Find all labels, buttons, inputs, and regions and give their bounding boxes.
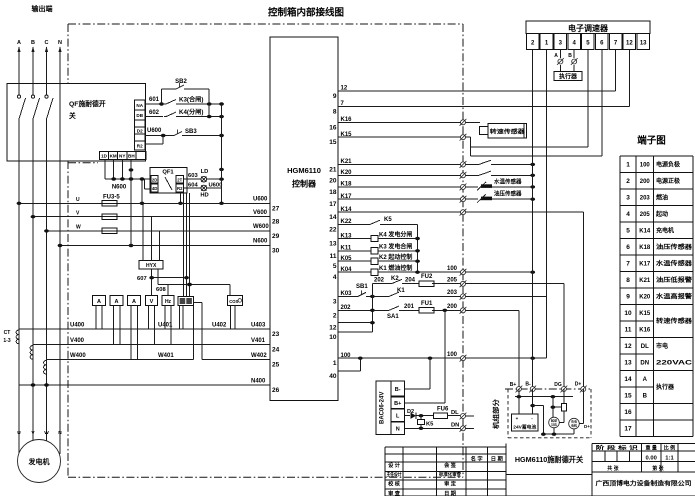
svg-text:DB: DB xyxy=(136,113,143,118)
svg-text:电源负极: 电源负极 xyxy=(656,160,681,168)
svg-text:604: 604 xyxy=(188,183,198,189)
svg-text:HD: HD xyxy=(200,193,208,199)
svg-text:HGM6110: HGM6110 xyxy=(287,166,321,175)
svg-text:重 量: 重 量 xyxy=(646,444,657,451)
svg-text:8: 8 xyxy=(626,277,630,284)
svg-text:FU3-5: FU3-5 xyxy=(103,195,120,201)
svg-text:D+: D+ xyxy=(584,424,590,429)
svg-text:K3(合闸): K3(合闸) xyxy=(179,96,203,104)
svg-text:13: 13 xyxy=(624,359,632,366)
svg-text:W401: W401 xyxy=(158,353,174,359)
svg-text:COS: COS xyxy=(229,299,238,304)
svg-text:N: N xyxy=(396,427,400,433)
svg-text:U: U xyxy=(76,197,80,203)
svg-text:U600: U600 xyxy=(209,182,223,188)
svg-text:14: 14 xyxy=(329,214,337,221)
svg-text:20: 20 xyxy=(329,177,337,184)
svg-text:主任设计: 主任设计 xyxy=(387,470,403,478)
svg-text:共 张: 共 张 xyxy=(607,465,619,472)
svg-text:油压传感器: 油压传感器 xyxy=(494,190,522,198)
svg-text:U401: U401 xyxy=(158,322,173,328)
svg-text:控制器: 控制器 xyxy=(292,179,317,189)
svg-text:203: 203 xyxy=(640,195,651,201)
svg-text:10: 10 xyxy=(329,334,337,341)
svg-text:200: 200 xyxy=(447,304,458,310)
svg-text:K14: K14 xyxy=(639,228,651,234)
svg-text:D2: D2 xyxy=(137,129,143,134)
svg-text:12: 12 xyxy=(329,325,337,332)
svg-text:端子图: 端子图 xyxy=(637,135,666,147)
svg-text:2T: 2T xyxy=(177,177,182,182)
svg-text:K5: K5 xyxy=(426,421,434,427)
svg-text:B-: B- xyxy=(525,382,531,388)
svg-text:A: A xyxy=(115,299,119,305)
svg-text:日 期: 日 期 xyxy=(491,454,504,462)
svg-text:阶 段 标 识: 阶 段 标 识 xyxy=(596,444,638,451)
svg-text:203: 203 xyxy=(447,290,458,296)
svg-text:DL: DL xyxy=(451,410,459,416)
svg-text:电机: 电机 xyxy=(571,423,577,428)
svg-text:K4 发电分闸: K4 发电分闸 xyxy=(379,230,412,238)
svg-text:2: 2 xyxy=(626,178,630,185)
svg-text:9: 9 xyxy=(626,293,630,300)
svg-text:K4(分闸): K4(分闸) xyxy=(179,108,203,116)
svg-text:K2: K2 xyxy=(391,276,399,282)
svg-text:16: 16 xyxy=(624,409,632,416)
svg-text:N600: N600 xyxy=(112,185,127,191)
svg-text:13: 13 xyxy=(329,241,337,248)
svg-text:W400: W400 xyxy=(70,353,86,359)
svg-text:机组部分: 机组部分 xyxy=(491,398,500,429)
svg-text:HGM6110施耐德开关: HGM6110施耐德开关 xyxy=(515,455,584,464)
svg-text:执行器: 执行器 xyxy=(559,72,578,80)
svg-text:24: 24 xyxy=(272,347,280,354)
svg-text:油压传感器: 油压传感器 xyxy=(656,243,693,251)
svg-text:601: 601 xyxy=(149,97,160,103)
svg-text:W600: W600 xyxy=(253,224,269,230)
svg-text:16: 16 xyxy=(329,124,337,131)
svg-text:4: 4 xyxy=(333,274,337,281)
svg-text:R2: R2 xyxy=(177,186,183,191)
svg-text:602: 602 xyxy=(149,110,160,116)
svg-text:21: 21 xyxy=(329,166,337,173)
svg-text:U600: U600 xyxy=(253,197,268,203)
svg-text:K5: K5 xyxy=(384,217,392,223)
svg-text:11: 11 xyxy=(625,326,632,333)
svg-text:100: 100 xyxy=(447,266,458,272)
svg-text:控制箱内部接线图: 控制箱内部接线图 xyxy=(268,7,344,19)
svg-text:K1 燃油控制: K1 燃油控制 xyxy=(379,264,412,272)
svg-text:水温传感器: 水温传感器 xyxy=(656,259,693,267)
svg-text:SB1: SB1 xyxy=(356,284,368,290)
svg-text:3: 3 xyxy=(333,298,337,305)
svg-text:QF施耐德开: QF施耐德开 xyxy=(69,99,106,108)
svg-text:608: 608 xyxy=(156,287,166,293)
svg-text:22: 22 xyxy=(329,226,337,233)
svg-text:5: 5 xyxy=(333,263,337,270)
svg-text:V: V xyxy=(150,299,154,305)
svg-text:204: 204 xyxy=(405,277,416,283)
svg-text:KM: KM xyxy=(110,154,117,159)
svg-text:DG: DG xyxy=(554,382,562,388)
svg-text:10: 10 xyxy=(624,310,632,317)
svg-text:BAC06-24V: BAC06-24V xyxy=(380,392,386,424)
svg-text:V600: V600 xyxy=(253,210,268,216)
svg-text:比 例: 比 例 xyxy=(664,444,675,451)
svg-text:B-: B- xyxy=(395,387,401,393)
svg-text:K2 起动控制: K2 起动控制 xyxy=(379,253,412,261)
svg-text:审 查: 审 查 xyxy=(388,489,401,496)
svg-text:A: A xyxy=(643,377,648,383)
svg-text:SA1: SA1 xyxy=(387,314,399,320)
svg-text:B+: B+ xyxy=(394,401,401,407)
svg-text:关: 关 xyxy=(69,111,76,120)
svg-text:K20: K20 xyxy=(639,294,651,300)
svg-text:4D: 4D xyxy=(152,186,158,191)
svg-text:30: 30 xyxy=(272,248,280,255)
svg-text:SB2: SB2 xyxy=(175,79,187,85)
svg-text:U: U xyxy=(17,430,21,436)
svg-text:日 期: 日 期 xyxy=(444,489,456,496)
svg-text:K21: K21 xyxy=(639,278,651,284)
svg-text:A: A xyxy=(97,299,101,305)
svg-text:23: 23 xyxy=(272,331,280,338)
svg-text:校 核: 校 核 xyxy=(388,480,401,488)
svg-text:25: 25 xyxy=(272,362,280,369)
svg-text:1:1: 1:1 xyxy=(665,455,674,461)
svg-text:200: 200 xyxy=(640,179,651,185)
svg-text:40: 40 xyxy=(329,373,337,380)
svg-text:W: W xyxy=(44,430,49,436)
svg-text:15: 15 xyxy=(329,139,337,146)
svg-text:24V蓄电池: 24V蓄电池 xyxy=(513,423,537,430)
svg-text:电源正极: 电源正极 xyxy=(656,177,681,185)
svg-text:9: 9 xyxy=(333,93,337,100)
svg-text:1D: 1D xyxy=(101,154,108,159)
svg-text:标准化审查: 标准化审查 xyxy=(438,470,462,478)
svg-text:202: 202 xyxy=(374,277,385,283)
svg-text:B: B xyxy=(643,393,648,399)
svg-text:C: C xyxy=(45,40,49,46)
svg-text:市电: 市电 xyxy=(656,342,668,350)
svg-text:设 计: 设 计 xyxy=(388,461,401,469)
svg-text:起动: 起动 xyxy=(655,210,668,218)
svg-text:29: 29 xyxy=(272,233,280,240)
svg-text:220VAC: 220VAC xyxy=(656,360,693,366)
svg-text:马达: 马达 xyxy=(551,422,558,427)
svg-text:2D: 2D xyxy=(152,177,158,182)
svg-text:11: 11 xyxy=(330,253,337,260)
svg-text:发电机: 发电机 xyxy=(28,457,50,466)
svg-text:U403: U403 xyxy=(251,322,266,328)
svg-text:205: 205 xyxy=(447,278,458,284)
svg-text:充电机: 充电机 xyxy=(656,226,674,234)
svg-text:FU1: FU1 xyxy=(421,301,433,307)
svg-text:水温高报警: 水温高报警 xyxy=(656,292,692,300)
svg-text:U400: U400 xyxy=(70,322,85,328)
svg-text:D2: D2 xyxy=(407,409,414,415)
svg-text:N400: N400 xyxy=(251,378,266,384)
svg-text:V400: V400 xyxy=(70,338,85,344)
svg-text:1-3: 1-3 xyxy=(3,338,10,344)
svg-text:+: + xyxy=(516,416,519,421)
svg-text:201: 201 xyxy=(404,304,415,310)
svg-text:0.00: 0.00 xyxy=(646,455,657,461)
svg-text:603: 603 xyxy=(188,173,198,179)
svg-text:LD: LD xyxy=(201,169,209,175)
svg-text:28: 28 xyxy=(272,219,280,226)
svg-text:3: 3 xyxy=(626,194,630,201)
svg-text:广西顶博电力设备制造有限公司: 广西顶博电力设备制造有限公司 xyxy=(596,480,692,488)
svg-text:7: 7 xyxy=(626,260,630,267)
svg-text:N: N xyxy=(58,430,62,436)
svg-text:1: 1 xyxy=(626,161,630,168)
svg-text:DL: DL xyxy=(641,344,649,350)
svg-text:NY: NY xyxy=(119,154,125,159)
svg-text:27: 27 xyxy=(272,205,280,212)
svg-text:205: 205 xyxy=(640,212,651,218)
svg-text:SB3: SB3 xyxy=(185,129,197,135)
svg-text:K3 发电合闸: K3 发电合闸 xyxy=(379,243,412,251)
svg-text:607: 607 xyxy=(137,276,147,282)
svg-text:N600: N600 xyxy=(253,239,268,245)
svg-text:V401: V401 xyxy=(251,338,266,344)
svg-text:FU2: FU2 xyxy=(421,274,433,280)
svg-text:U402: U402 xyxy=(212,322,227,328)
svg-text:电子调速器: 电子调速器 xyxy=(568,23,609,33)
svg-text:A: A xyxy=(17,40,21,46)
svg-text:B+: B+ xyxy=(510,382,517,388)
svg-text:K1: K1 xyxy=(397,288,405,294)
svg-text:W402: W402 xyxy=(251,353,267,359)
svg-text:6: 6 xyxy=(626,244,630,251)
svg-text:B: B xyxy=(31,40,35,46)
svg-text:DN: DN xyxy=(451,423,459,429)
svg-text:U600: U600 xyxy=(147,128,162,134)
svg-text:油压低报警: 油压低报警 xyxy=(656,276,692,284)
svg-text:转速传感器: 转速传感器 xyxy=(656,317,693,325)
svg-text:FU6: FU6 xyxy=(437,407,449,413)
svg-text:K15: K15 xyxy=(639,311,651,317)
svg-text:A: A xyxy=(554,53,558,59)
svg-text:R2: R2 xyxy=(137,144,143,149)
svg-text:HYX: HYX xyxy=(146,263,157,269)
svg-text:2: 2 xyxy=(333,312,337,319)
svg-text:名 字: 名 字 xyxy=(471,454,484,462)
svg-text:100: 100 xyxy=(447,352,458,358)
svg-text:K16: K16 xyxy=(639,327,651,333)
svg-text:NA: NA xyxy=(136,103,143,108)
svg-text:1: 1 xyxy=(333,360,337,367)
svg-text:15: 15 xyxy=(624,392,632,399)
svg-text:转速传感器: 转速传感器 xyxy=(490,127,526,135)
svg-text:DN: DN xyxy=(640,360,649,366)
svg-text:第 张: 第 张 xyxy=(652,465,664,472)
svg-text:执行器: 执行器 xyxy=(656,383,675,391)
svg-text:18: 18 xyxy=(329,189,337,196)
svg-text:N: N xyxy=(58,40,62,46)
svg-text:26: 26 xyxy=(272,387,280,394)
svg-text:4: 4 xyxy=(626,211,630,218)
svg-text:审 定: 审 定 xyxy=(444,480,457,488)
svg-text:17: 17 xyxy=(329,201,337,208)
svg-text:13: 13 xyxy=(640,41,647,47)
svg-text:5: 5 xyxy=(626,227,630,234)
svg-text:12: 12 xyxy=(624,343,632,350)
svg-text:12: 12 xyxy=(626,41,633,47)
svg-text:输出端: 输出端 xyxy=(32,4,53,13)
svg-text:燃油: 燃油 xyxy=(656,193,668,201)
svg-text:K18: K18 xyxy=(639,245,651,251)
svg-text:A: A xyxy=(132,299,136,305)
svg-text:CT: CT xyxy=(4,330,11,336)
svg-text:K17: K17 xyxy=(639,261,651,267)
svg-text:B: B xyxy=(568,53,572,59)
svg-text:水温传感器: 水温传感器 xyxy=(494,178,522,186)
svg-text:14: 14 xyxy=(624,376,632,383)
svg-text:QF1: QF1 xyxy=(162,170,174,176)
svg-text:Hz: Hz xyxy=(165,299,172,305)
svg-text:D+: D+ xyxy=(575,382,582,388)
svg-text:BH: BH xyxy=(128,154,135,159)
svg-text:17: 17 xyxy=(624,425,632,432)
svg-text:100: 100 xyxy=(640,162,651,168)
svg-text:W: W xyxy=(76,225,81,231)
svg-text:8: 8 xyxy=(333,108,337,115)
svg-text:会 签: 会 签 xyxy=(444,461,457,469)
